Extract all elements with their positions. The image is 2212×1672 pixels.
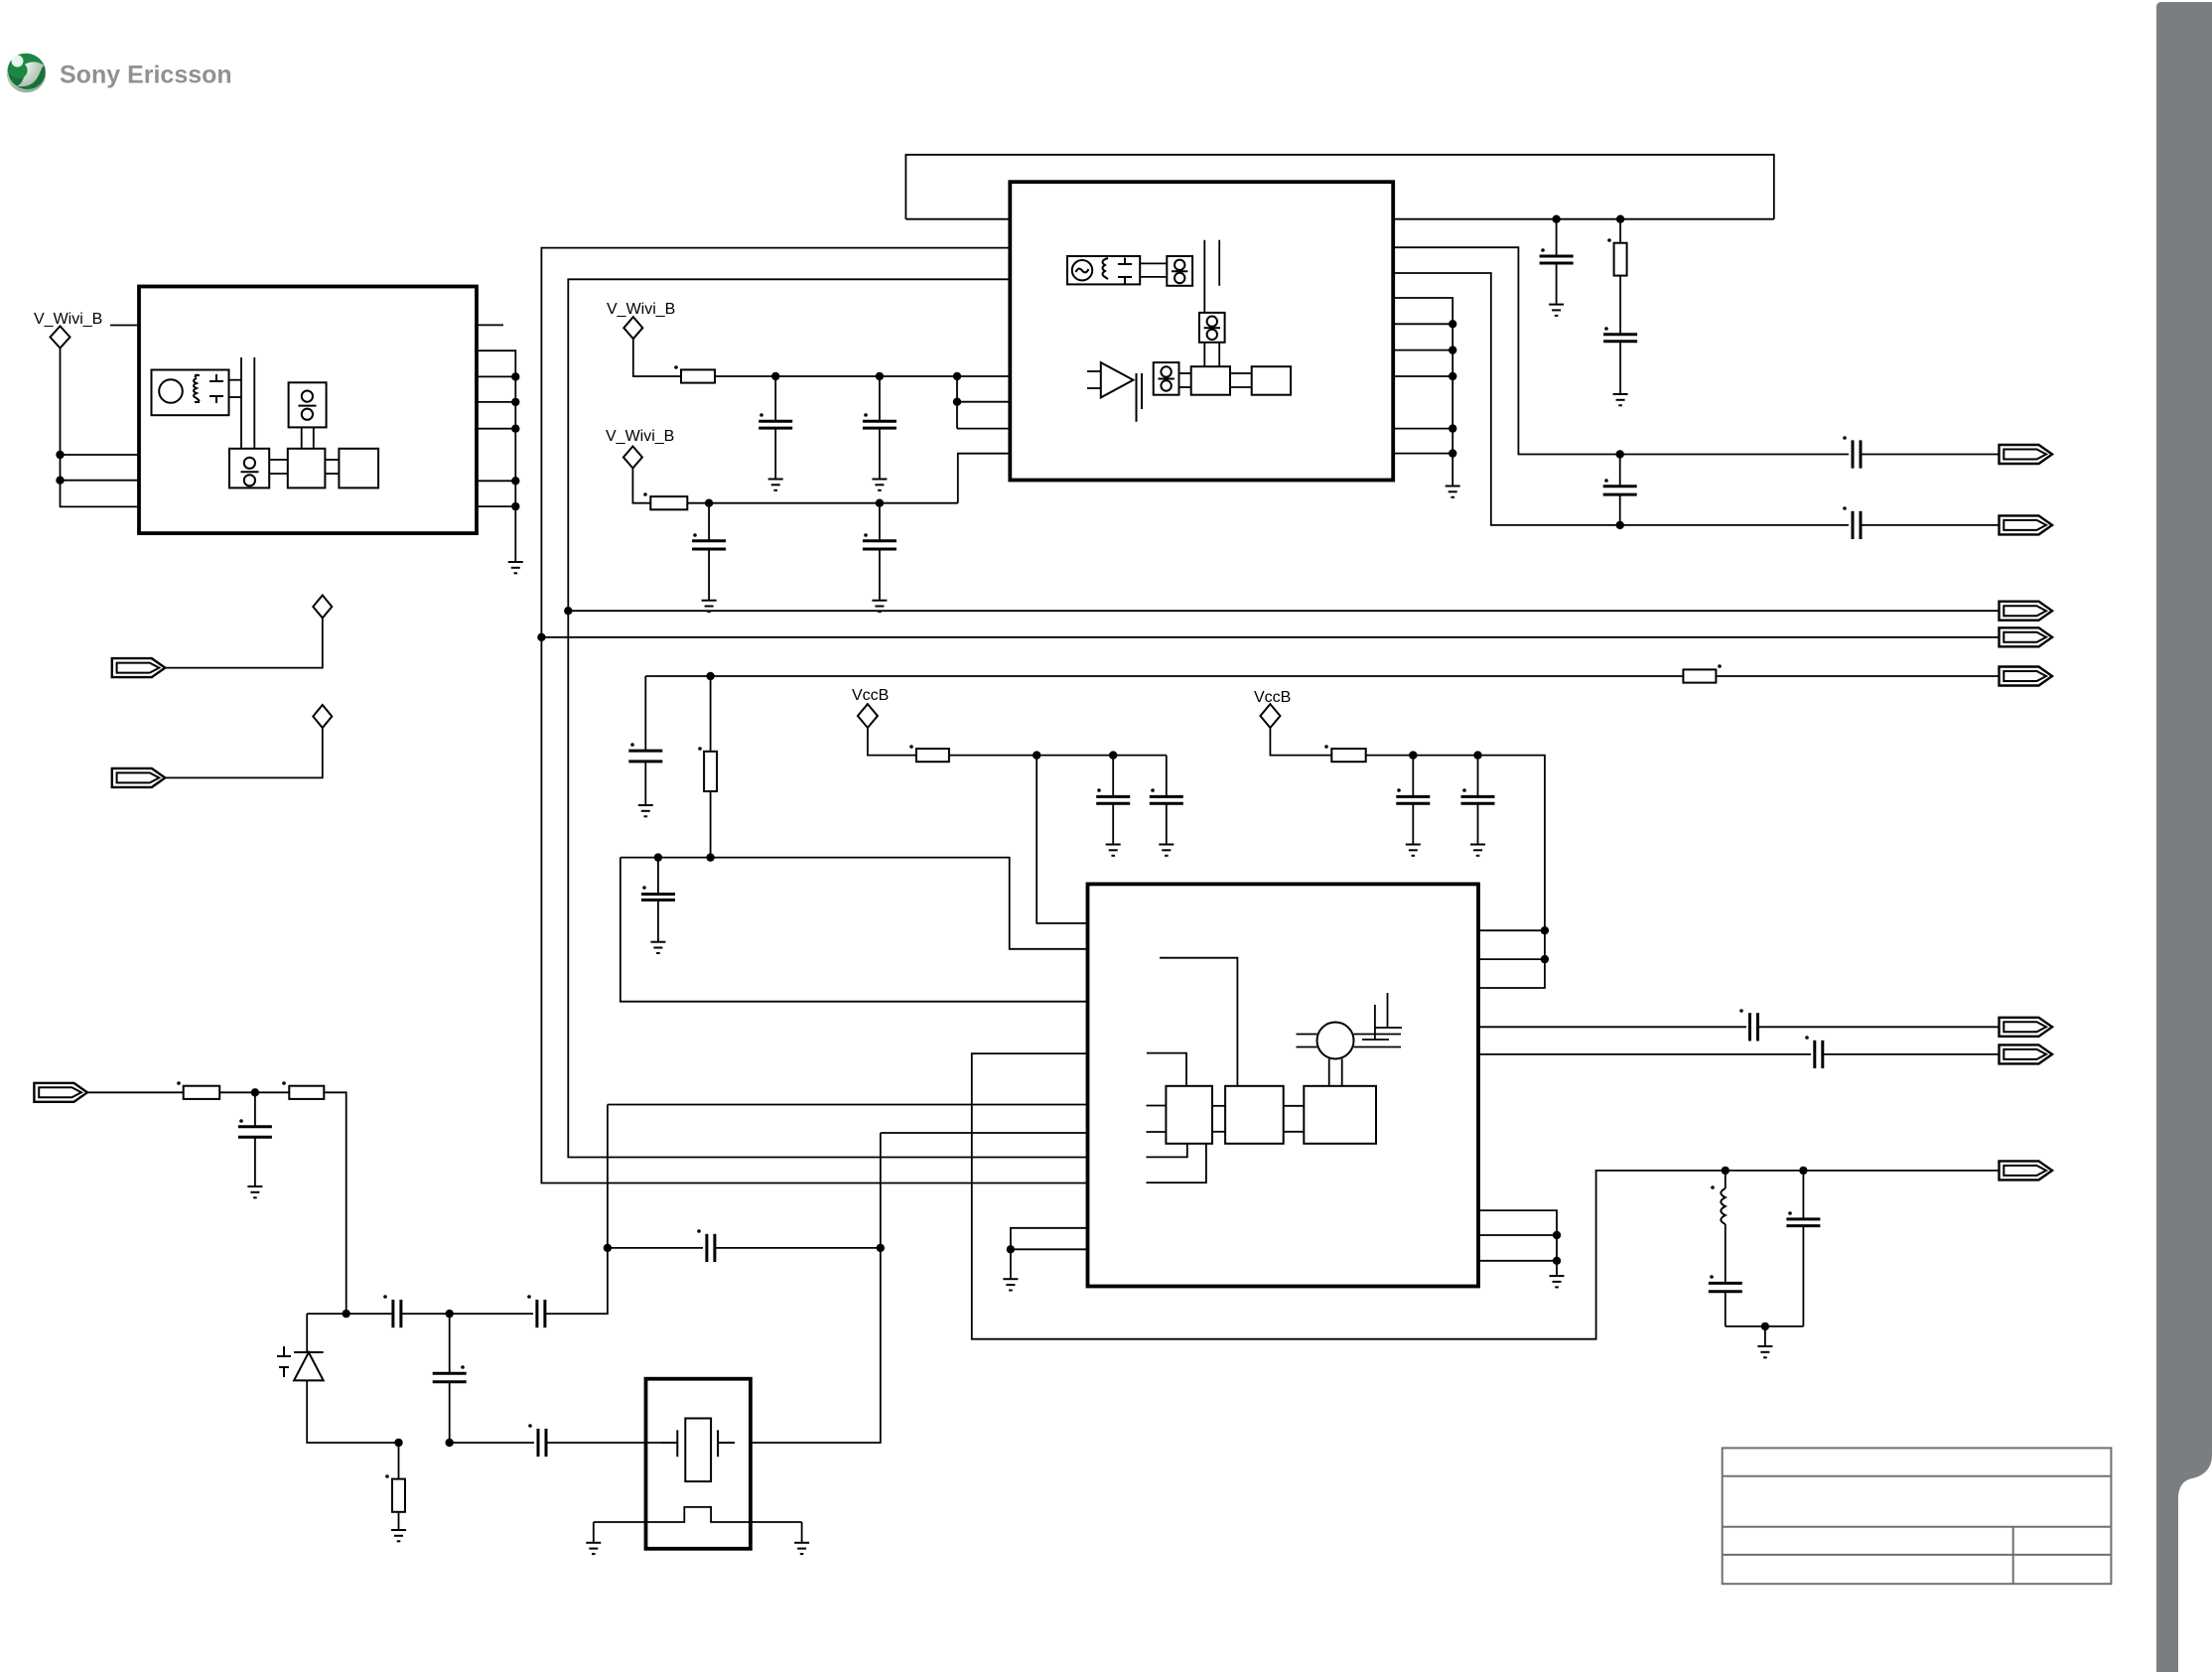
U3 circle (PA) <box>1317 1023 1354 1059</box>
diode loop left branch <box>306 1314 308 1352</box>
cap chain rail2 at 714 <box>692 499 726 613</box>
rail 1453 wire and series cap before crystal <box>450 1442 538 1444</box>
series cap rail 1323 (right) <box>533 1300 545 1327</box>
vertical 886.8 corner to U3 pin 1141 and down to crystal <box>751 1133 881 1443</box>
output row 1062 with series cap and connector <box>1478 1053 2000 1055</box>
cap chain at 662.9 on rail 863.6 <box>641 853 675 953</box>
connector arrow out row 528.9 <box>2000 515 2053 534</box>
U1 box3 <box>339 449 378 488</box>
U1 right pin stub (nc) <box>477 324 503 326</box>
rail wire right <box>949 755 1167 757</box>
U2 right box <box>1252 366 1291 395</box>
rail1 branch vertical into U2 pins <box>953 372 961 380</box>
U1 vco output stubs <box>229 379 242 381</box>
resistor VccB rail2 <box>1331 749 1365 762</box>
U3 left pin from 886.8 corner <box>881 1132 1088 1134</box>
cap chain rail1 at 781 <box>759 372 792 490</box>
wire diamond to rail1 <box>633 339 681 376</box>
U1 divider box B (two circles, upper) <box>289 382 327 427</box>
inductor chain at 1737.8 <box>1709 1167 1742 1326</box>
diode D (cathode bar + triangle) <box>294 1352 324 1380</box>
U3 inner stub 1113.5 <box>1147 1105 1167 1107</box>
connector arrow L1 <box>112 658 166 677</box>
wire diamond to rail <box>868 728 916 756</box>
wire 1256.9 with series cap to vertical 886.8 <box>608 1247 707 1249</box>
resistor chain at 715.6 from row 681 to rail 863.6 <box>704 672 717 862</box>
resistor R row 681 <box>1683 669 1716 682</box>
U3 inner L wire top <box>1147 1053 1186 1086</box>
VCO cap symbol <box>209 374 223 403</box>
bus rect bottom left segment into U2 <box>905 218 1010 220</box>
IC block U1 outline <box>139 287 477 534</box>
rail2 wire right <box>687 502 958 504</box>
Sony Ericsson logo sphere <box>7 54 47 93</box>
cap chain at 1175 (rail end) <box>1150 756 1183 856</box>
U2 divider box 3 (after amp) <box>1154 362 1179 395</box>
svg-text:V_Wivi_B: V_Wivi_B <box>34 311 102 328</box>
junction on diamond net at 458 <box>56 451 64 459</box>
U2 vertical line pair top <box>1203 240 1205 313</box>
svg-text:V_Wivi_B: V_Wivi_B <box>606 428 674 445</box>
wire to corner and down <box>324 1092 346 1314</box>
diamond V_Wivi_B rail1 <box>623 317 642 339</box>
bottom joining rail with ground <box>1726 1325 1804 1327</box>
cap chain at 1816.4 <box>1786 1167 1820 1326</box>
U2 pair mixer-right box <box>1230 372 1252 374</box>
IC block U3 outline <box>1088 884 1479 1286</box>
cap C on bus rect right segment <box>1540 215 1574 316</box>
connector arrow out row 457.5 <box>2000 445 2053 464</box>
diode small cap mark <box>277 1346 291 1377</box>
crystal block outline <box>646 1379 751 1549</box>
corner chain cap at 650 <box>628 676 662 816</box>
U3 antenna symbol <box>1374 1005 1376 1040</box>
U1 inner VCO symbol box <box>152 370 229 416</box>
rail 1323 wires <box>307 1313 393 1315</box>
svg-text:V_Wivi_B: V_Wivi_B <box>607 301 675 318</box>
power net diamond V_Wivi_B (left) <box>51 327 70 348</box>
U3 inner box 2 <box>1225 1086 1284 1144</box>
U1 connector pair divider A - mixer <box>269 459 288 461</box>
U3 inner box 1 <box>1166 1086 1212 1144</box>
cap chain at 1423 <box>1396 751 1430 855</box>
VCO inductor squiggle <box>194 374 200 402</box>
bus vertical 1 (left) <box>541 248 1087 1184</box>
cap chain at 256.9 <box>238 1088 272 1197</box>
series cap on row 457.5 <box>1849 440 1861 468</box>
U2 inner oscillator box <box>1067 256 1140 284</box>
ground for chain 1017.9 <box>1003 1279 1018 1290</box>
connector arrow row 615 <box>2000 602 2053 621</box>
U2 amplifier triangle <box>1101 362 1134 397</box>
bracket left vertical to rail 1008 into U3 <box>621 858 1088 1002</box>
svg-text:VccB: VccB <box>1254 689 1291 706</box>
U2 stub pair osc to divider1 <box>1140 262 1167 264</box>
U3 inner box 3 <box>1304 1086 1376 1144</box>
U3 inner stub 1140 <box>1147 1131 1167 1133</box>
U3 pair box2-box3 <box>1284 1105 1305 1107</box>
rail 1453 resistor chain at 401.5 <box>391 1439 406 1542</box>
U2 divider box 2 <box>1199 313 1225 343</box>
wire L2 to diamond <box>164 728 323 777</box>
branch down to U3 pin 929.9 <box>1033 751 1040 759</box>
net diamond L2 <box>313 705 332 728</box>
diamond V_Wivi_B rail2 <box>623 447 642 469</box>
U3 left lower pin from 611.9 loop <box>608 1104 1088 1106</box>
U1 divider box A (two circles) <box>229 449 269 488</box>
U3 left pin bottom chain (corner 1017.9 to ground) <box>1011 1228 1088 1279</box>
wire into U1 pin at y458 <box>61 454 140 456</box>
connector arrow row 642 <box>2000 627 2053 646</box>
U3 circle left line pair <box>1297 1034 1317 1036</box>
wire stub from label into U1 pin 1 <box>110 325 139 327</box>
diamond VccB 1 <box>858 704 878 728</box>
U1 right pins bus to ground <box>477 350 515 562</box>
cap chain at 1489 <box>1461 751 1495 855</box>
U1 internal vertical line pair <box>240 357 242 449</box>
cap between output rows at 1632 <box>1603 450 1637 529</box>
diamond VccB 2 <box>1260 704 1280 728</box>
long wire row 681 left segment <box>645 675 1683 677</box>
svg-text:VccB: VccB <box>852 687 889 704</box>
U1 connector pair mixer - box3 <box>325 459 339 461</box>
svg-text:Sony Ericsson: Sony Ericsson <box>60 62 232 89</box>
grey side tab bar <box>2156 2 2212 1672</box>
resistor + cap chain on bus rect <box>1603 215 1637 406</box>
VCO circle <box>159 379 183 403</box>
resistor R bl1 <box>184 1086 220 1099</box>
net diamond L1 <box>313 596 332 619</box>
diode bottom lead to rail 1453 <box>307 1380 398 1443</box>
bracket rail 863.6 into U3 pin 955.8 <box>621 858 1088 949</box>
ground for U2 right pin chain <box>1446 487 1460 497</box>
series cap rail 1323 (left) <box>389 1300 401 1327</box>
connector arrow L3 <box>34 1083 87 1102</box>
U2 mixer box <box>1191 366 1230 395</box>
wire from diamond down left side of U1 <box>61 348 140 507</box>
long wire row 615 to connector <box>568 610 1999 612</box>
U2 right pin chain to ground <box>1393 298 1452 487</box>
rail 1323 right corner up to 611.9 vertical <box>545 1105 608 1315</box>
series cap on row 528.9 <box>1849 511 1861 539</box>
wire L1 to diamond <box>164 618 323 667</box>
U3 circle to box3 pair <box>1328 1059 1330 1086</box>
U1 mixer box <box>288 449 326 488</box>
wire L3 to resistor chain <box>86 1091 184 1093</box>
cap chain at 1121 <box>1096 751 1130 855</box>
U3 circle right line pair <box>1354 1034 1402 1036</box>
U2 pair divider2 to mixer <box>1203 343 1205 366</box>
rail wire right to corner <box>1366 756 1545 988</box>
long wire row 681 right segment <box>1716 675 1999 677</box>
bus rect bottom right segment from U2 <box>1393 218 1774 220</box>
ground for chain 1568 <box>1550 1276 1565 1287</box>
U1 vertical connector pair between divider B and mixer <box>301 427 303 448</box>
wire U2 pin 249 to output row 457.5 <box>1393 247 1999 454</box>
resistor R rail2 <box>650 496 687 509</box>
cap chain rail2 at 886 <box>863 499 897 613</box>
rail1 wire to U2 <box>715 375 1010 377</box>
cap chain rail1 at 886 <box>863 372 897 490</box>
wire diamond to rail2 <box>632 469 650 503</box>
U3 right lower pin chain to ground <box>1478 1210 1557 1276</box>
U3 pair box1-box2 <box>1212 1105 1225 1107</box>
title block table <box>1723 1448 2112 1584</box>
long wire row 642 to connector <box>541 636 1999 638</box>
wire diamond to rail <box>1270 728 1331 756</box>
wire U2 pin 275 to output row 528.9 <box>1393 273 1999 525</box>
U3 inner vertical from pin row into box2 <box>1160 958 1237 1086</box>
connector arrow row 1179 <box>2000 1161 2053 1180</box>
U3 inner L wire bottom 1 <box>1147 1144 1187 1158</box>
U2 amp input stubs <box>1087 370 1101 372</box>
crystal case electrode <box>594 1507 802 1522</box>
crystal element <box>661 1419 735 1482</box>
resistor R rail1 <box>681 369 715 382</box>
wire into U1 pin at y483.7 <box>61 480 140 482</box>
component polarity/reference marks <box>177 238 1847 1478</box>
junctions on U1 right pin bus <box>511 372 519 380</box>
cap between rails at 452.7 <box>433 1310 467 1447</box>
ground for U1 right pin bus <box>508 562 523 573</box>
connector arrow L2 <box>112 768 166 787</box>
crystal case ground left <box>593 1522 595 1543</box>
junction on diamond net at 483.7 <box>56 477 64 485</box>
IC block U2 outline <box>1010 182 1393 480</box>
connector arrow row 681 <box>2000 667 2053 686</box>
U2 divider box 1 <box>1167 256 1192 286</box>
resistor VccB rail1 <box>916 749 949 762</box>
U2 amp output cap lines <box>1136 373 1138 422</box>
bus rectangle top <box>905 155 1773 219</box>
U2 pair divider3-mixer <box>1179 372 1191 374</box>
crystal case ground right <box>801 1522 803 1543</box>
resistor R bl2 <box>289 1086 324 1099</box>
bus vertical 2 <box>568 279 1087 1157</box>
output row 1034 with series cap and connector <box>1478 1026 2000 1028</box>
big route from U3 pin 1061 around to row 1179 <box>972 1053 2000 1339</box>
U3 inner L wire bottom 2 <box>1147 1144 1206 1183</box>
rail2 corner up into U2 <box>958 454 1011 503</box>
U3 right pins to VccB vertical <box>1478 929 1545 931</box>
